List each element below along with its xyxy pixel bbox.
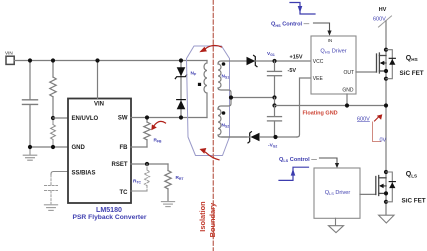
wire QLS control to IN <box>320 158 338 164</box>
svg-text:600V: 600V <box>357 116 370 122</box>
diode D2 clamp blocking diode <box>177 100 186 110</box>
wire SS/BIAS pin wire <box>51 172 68 176</box>
diode QHS body diode <box>386 50 395 79</box>
node center tap junction <box>229 95 233 99</box>
node NP phase dot <box>198 83 201 86</box>
node QHS body arrow <box>380 61 385 66</box>
node QHS diode junction <box>384 77 388 81</box>
wire floating node link <box>274 98 276 106</box>
node VG1 junction <box>272 59 276 63</box>
svg-text:Floating GND: Floating GND <box>303 110 338 116</box>
svg-text:SW: SW <box>118 116 128 122</box>
node divider top junction <box>51 58 55 62</box>
wire QLS driver OUT to gate <box>360 193 376 195</box>
node QHS source rail junction <box>384 103 388 107</box>
ground GND2 <box>44 205 57 211</box>
svg-text:Boundary: Boundary <box>208 202 217 237</box>
transistor Q2 QLS SiC FET <box>376 176 386 196</box>
wire transformer creepage arrow bottom <box>200 148 220 160</box>
wire switch node swing step <box>373 122 381 142</box>
svg-text:600V: 600V <box>373 16 386 22</box>
transformer T1 secondary winding NS2 <box>218 109 246 137</box>
wire VG1 rail to VCC <box>256 60 312 62</box>
resistor RTC (optional, dashed) <box>144 164 149 191</box>
node floating node upper junction <box>272 95 276 99</box>
diode D3 VG1 rectifier (schottky) <box>247 55 258 66</box>
svg-text:SS/BIAS: SS/BIAS <box>72 171 96 177</box>
ground GND1 <box>23 147 36 160</box>
node VIN terminal <box>5 51 14 65</box>
svg-text:Isolation: Isolation <box>198 201 207 232</box>
svg-text:VCC: VCC <box>313 59 324 65</box>
capacitor CSS (optional, dashed) <box>45 175 58 204</box>
node IN arrowhead <box>327 31 331 36</box>
svg-text:SiC FET: SiC FET <box>400 70 424 77</box>
transistor Q1 QHS SiC FET <box>377 53 387 73</box>
node -VG2 junction <box>273 135 277 139</box>
svg-text:SiC FET: SiC FET <box>402 197 426 204</box>
wire RSET pin wire <box>131 163 168 165</box>
capacitor C3 (floating GND to -VG2) <box>268 106 282 138</box>
wire -VG2 rail <box>222 136 297 138</box>
svg-text:QLS Driver: QLS Driver <box>325 190 351 196</box>
node EN divider node <box>51 116 55 120</box>
isolation boundary dashed line <box>212 0 214 251</box>
node floating node lower junction <box>272 103 276 107</box>
wire TC pin wire <box>131 190 147 192</box>
node QHS drain junction <box>384 48 388 52</box>
svg-text:HV: HV <box>379 7 387 13</box>
wire FB pin wire <box>131 146 147 148</box>
node SW-RFB junction <box>145 115 149 119</box>
svg-text:VIN: VIN <box>5 51 13 56</box>
node QLS source stub junction <box>384 191 388 195</box>
transformer T1 primary winding NP <box>204 61 207 118</box>
op-amp U1 LM5180 PSR flyback converter IC <box>68 99 131 204</box>
ground QLS source ground <box>379 215 394 223</box>
node GND-CIN junction <box>28 145 32 149</box>
wire VIN rail <box>14 60 207 62</box>
wire floating GND rail <box>275 105 387 107</box>
svg-text:OUT: OUT <box>343 70 354 76</box>
resistor RRT <box>165 164 171 201</box>
wire VEE drop <box>297 78 311 137</box>
wire switch node red arrow <box>375 114 383 121</box>
wire VIN pin wire <box>97 61 99 99</box>
svg-text:GND: GND <box>72 145 86 151</box>
wire SW rail <box>131 117 207 119</box>
resistor RUV2 (lower divider) <box>51 118 56 147</box>
node QLS diode junction <box>384 200 388 204</box>
svg-text:GND: GND <box>342 87 354 93</box>
node QLS drain junction <box>384 170 388 174</box>
wire OUT to QHS gate <box>356 71 377 73</box>
wire HV bus vertical <box>385 21 387 215</box>
svg-text:VIN: VIN <box>94 102 104 108</box>
svg-text:QHS Driver: QHS Driver <box>320 49 346 55</box>
resistor RUV1 (upper divider) <box>50 61 56 119</box>
resistor RFB <box>144 118 150 148</box>
svg-text:TC: TC <box>120 190 129 196</box>
svg-text:VEE: VEE <box>313 76 324 82</box>
diode DZ1 zener clamp <box>175 67 186 78</box>
node GND rail junction <box>345 103 349 107</box>
node VIN-CIN junction <box>28 58 32 62</box>
diode QLS body diode <box>386 172 395 202</box>
capacitor C2 (VG1 to floating GND) <box>268 61 282 98</box>
node QHS source stub junction <box>384 69 388 73</box>
svg-text:RSET: RSET <box>111 162 127 168</box>
node RSET junction <box>145 162 149 166</box>
diode D4 -VG2 rectifier (schottky) <box>248 132 260 143</box>
capacitor CIN <box>23 61 38 148</box>
svg-text:-5V: -5V <box>288 68 297 74</box>
wire center tap to floating node <box>231 97 275 99</box>
wire clamp branch vertical <box>180 61 182 118</box>
svg-text:FB: FB <box>120 145 129 151</box>
transformer T1 secondary winding NS1 <box>218 61 246 109</box>
transformer T1 package outline <box>187 46 230 156</box>
svg-text:EN/UVLO: EN/UVLO <box>72 116 99 122</box>
svg-text:IN: IN <box>328 38 332 43</box>
wire RFB red annotation arrow <box>151 121 165 130</box>
node QLS body arrow <box>379 184 384 189</box>
wire transformer creepage arrow top <box>199 45 221 52</box>
wire QHS control to IN <box>314 23 330 31</box>
wire GND rail to IC <box>30 146 68 148</box>
node NS1 phase dot <box>222 62 226 66</box>
node NS2 phase dot <box>222 111 226 115</box>
node clamp bottom junction <box>179 115 183 119</box>
svg-text:PSR Flyback Converter: PSR Flyback Converter <box>73 214 147 221</box>
op-amp U2 QHS gate driver <box>311 36 356 94</box>
ground QLS driver ground <box>329 218 344 232</box>
node QLS IN arrowhead <box>335 163 339 168</box>
node GND-divider junction <box>51 145 55 149</box>
wire GND pin drop <box>346 94 348 106</box>
wire 600V callout slash <box>379 16 392 27</box>
node QLS control edge symbol <box>279 167 309 180</box>
wire EN/UVLO pin wire <box>53 117 68 119</box>
node VIN pin junction <box>95 58 99 62</box>
svg-text:LM5180: LM5180 <box>96 206 122 214</box>
node QHS control edge symbol <box>290 3 315 15</box>
svg-text:0V: 0V <box>380 137 387 143</box>
ground GND3 <box>161 202 174 207</box>
node clamp top junction <box>179 58 183 62</box>
op-amp U3 QLS gate driver <box>314 168 360 218</box>
svg-text:+15V: +15V <box>290 54 303 60</box>
